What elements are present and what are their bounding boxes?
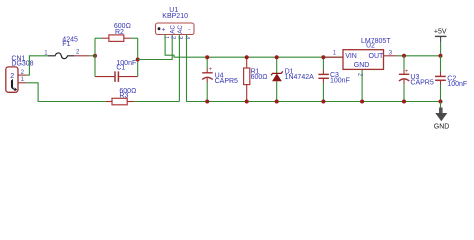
zener diode D1 1N4742A xyxy=(271,57,283,101)
junction dot C3 top xyxy=(321,55,325,59)
junction dot U3 bottom xyxy=(402,100,406,104)
svg-text:100nF: 100nF xyxy=(447,81,467,88)
wire CN1 pin2 to fuse line xyxy=(26,56,48,75)
svg-text:+: + xyxy=(162,27,166,34)
svg-text:DG308: DG308 xyxy=(11,60,33,67)
wire R2 right xyxy=(131,37,138,39)
junction dot D1 bottom xyxy=(275,100,279,104)
svg-text:GND: GND xyxy=(434,124,450,131)
svg-text:R3: R3 xyxy=(119,93,128,100)
svg-text:KBP210: KBP210 xyxy=(162,13,188,20)
svg-text:1N4742A: 1N4742A xyxy=(285,74,315,81)
wire right rail of R2/C1 xyxy=(137,38,139,76)
svg-text:600Ω: 600Ω xyxy=(251,74,268,81)
junction dot R2/C1 right xyxy=(136,58,140,62)
junction dot ground rail end xyxy=(439,100,443,104)
wire bridge pin3 down xyxy=(178,35,180,102)
junction dot +5V / C2 xyxy=(439,54,443,58)
capacitor C1 xyxy=(95,71,138,82)
wire R2C1 output to bridge AC pin 2 xyxy=(138,35,173,60)
wire fuse to junction xyxy=(89,55,95,57)
capacitor C3 xyxy=(318,57,329,101)
svg-text:R2: R2 xyxy=(115,29,124,36)
resistor R1 xyxy=(244,57,250,101)
wire R3 line to bridge pin3 xyxy=(134,101,180,103)
svg-text:2: 2 xyxy=(10,73,14,80)
junction dot C3 bottom xyxy=(321,100,325,104)
fuse F1 xyxy=(48,53,89,59)
junction dot R1 bottom xyxy=(245,100,249,104)
svg-text:C1: C1 xyxy=(116,65,125,72)
wire U2 out to +5V node xyxy=(397,55,441,57)
junction dot U4 top xyxy=(205,55,209,59)
capacitor U4 polarized xyxy=(202,57,213,101)
pin 1 stub of CN1 xyxy=(18,82,26,84)
capacitor U3 polarized xyxy=(399,56,409,102)
svg-text:+5V: +5V xyxy=(434,29,447,36)
wire U2 pin2 to ground rail xyxy=(361,69,363,101)
regulator U2 LM7805T xyxy=(323,50,396,70)
svg-text:AC: AC xyxy=(169,25,176,34)
capacitor C2 xyxy=(435,56,446,102)
svg-text:CAPR5: CAPR5 xyxy=(215,78,238,85)
wire R2 left xyxy=(95,37,102,39)
pin 2 stub of CN1 xyxy=(18,74,26,76)
svg-text:AC: AC xyxy=(177,25,184,34)
connector CN1 DG308 xyxy=(6,67,18,92)
bridge rectifier U1 KBP210 xyxy=(156,23,195,35)
power symbol +5V xyxy=(434,29,447,56)
resistor R2 xyxy=(102,35,131,42)
svg-text:F1: F1 xyxy=(62,41,70,48)
svg-text:U2: U2 xyxy=(366,43,375,50)
junction dot R1 top xyxy=(245,55,249,59)
ground symbol GND xyxy=(434,102,450,131)
svg-text:-: - xyxy=(188,26,190,33)
svg-text:OUT: OUT xyxy=(369,53,385,60)
junction dot fuse/R2/C1 left xyxy=(93,54,97,58)
junction dot U4 bottom xyxy=(205,100,209,104)
wire bridge pin4 down to ground rail xyxy=(187,35,441,102)
wire left rail of R2/C1 xyxy=(94,38,96,76)
junction dot D1 top xyxy=(275,55,279,59)
svg-text:100nF: 100nF xyxy=(330,78,350,85)
junction dot U3 top xyxy=(402,54,406,58)
junction dot U2 gnd xyxy=(360,100,364,104)
resistor R3 xyxy=(106,98,134,105)
svg-text:VIN: VIN xyxy=(345,53,357,60)
wire bridge pin1 jog to main rail xyxy=(165,35,343,58)
svg-text:CAPR5: CAPR5 xyxy=(410,80,433,87)
svg-text:GND: GND xyxy=(354,62,370,69)
wire CN1 pin1 down to R3 line xyxy=(26,83,106,102)
